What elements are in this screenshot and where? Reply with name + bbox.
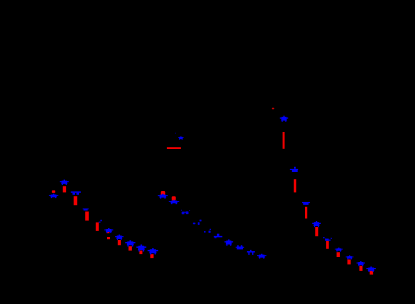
bond C-O R3 (red segment)	[283, 132, 285, 149]
atom O label M1	[161, 191, 165, 195]
atom N L4 (left)	[49, 194, 58, 198]
bond n-n M5 bridge	[182, 212, 188, 213]
atom N+ L1 (left)	[60, 180, 69, 185]
atom N B3 (bottom-left chain)	[125, 240, 135, 246]
atom N S6 (right chain)	[366, 267, 376, 272]
atom N C4 (bottom-middle, boat label)	[247, 250, 255, 255]
atom N C1 (bottom-middle, flat label)	[214, 234, 223, 239]
bond C=O B2 (red segment)	[118, 240, 121, 245]
atom N S2 (right chain, bird-shape label)	[323, 237, 332, 241]
atom N B1 (bottom-left chain)	[104, 228, 113, 233]
bond stub M5c	[181, 209, 182, 212]
bond C=O S1 (red segment)	[315, 227, 318, 236]
bond C=O B1 lower (red segment)	[107, 237, 110, 239]
atom NH M2 (middle)	[158, 194, 168, 199]
bond stub near N L9b	[99, 222, 101, 223]
atom O (carbonyl, top right)	[272, 108, 274, 109]
bond C=O B4 (red segment)	[139, 251, 142, 255]
atom N B4 (bottom-left chain)	[136, 244, 146, 251]
atom N S4 (right chain)	[346, 255, 354, 259]
atom NH M4 (middle)	[169, 200, 179, 204]
atom N (top middle)	[178, 136, 183, 140]
atom N B2 (bottom-left chain)	[115, 235, 123, 241]
atom N S3 (right chain)	[335, 248, 343, 252]
atom N (upper right)	[280, 116, 288, 122]
bond stub T1s (faint)	[174, 132, 177, 135]
atom n M5 right dot	[186, 211, 189, 214]
bond C=O B3 (red segment)	[129, 246, 132, 250]
atom O label M3	[172, 196, 176, 200]
bond C=O B5 (red segment)	[150, 254, 153, 258]
bond C=O R5 (red segment)	[294, 179, 296, 192]
bond C=O S2 (red segment)	[326, 241, 329, 249]
atom n M6 left dot	[193, 223, 196, 225]
bond C=O S4 (red segment)	[347, 260, 350, 265]
atom N R6 (right)	[302, 202, 310, 205]
atom N S5 (right chain)	[357, 261, 365, 266]
atom O (carbonyl, left)	[52, 190, 55, 193]
atom N B5 (bottom-left chain)	[148, 248, 159, 254]
bond C=O S6 (red segment)	[370, 271, 373, 275]
bond C=O L2 (red segment)	[63, 186, 66, 192]
bond stub M5d	[189, 209, 190, 212]
atom N C3 (bottom-middle, m-shape label)	[236, 245, 244, 249]
atom n M5 left dot	[182, 212, 185, 215]
atom N L7 (left)	[83, 208, 89, 210]
bond C=O L6 (red segment)	[74, 196, 78, 205]
bond C=O L8 (red segment)	[85, 212, 89, 221]
bond C=O L10 (red segment)	[96, 222, 99, 231]
bond stub M7c	[210, 229, 211, 230]
atom N R4 (right, T-shape label)	[290, 167, 298, 172]
atom n M7 left dot	[204, 231, 206, 233]
bond stub M6c	[200, 220, 202, 222]
bond stub near N L9a	[100, 220, 102, 222]
atom n M7 right dot	[209, 231, 211, 233]
atom N L5 (left, W-shape NH label)	[71, 191, 81, 194]
bond C=O of amide A1 (red segment)	[167, 147, 181, 149]
bond C=O B1 upper (red segment)	[107, 232, 110, 234]
bond C=O S5 (red segment)	[359, 266, 362, 271]
atom N C5 (bottom-middle chain)	[257, 254, 266, 259]
bond C=O S3 (red segment)	[337, 252, 340, 257]
atom N C2 (bottom-middle chain)	[224, 239, 233, 245]
atom N S1 (right chain)	[312, 221, 321, 227]
atom n M6 right dot	[198, 222, 200, 225]
bond C=O R7 (red segment)	[305, 207, 307, 219]
